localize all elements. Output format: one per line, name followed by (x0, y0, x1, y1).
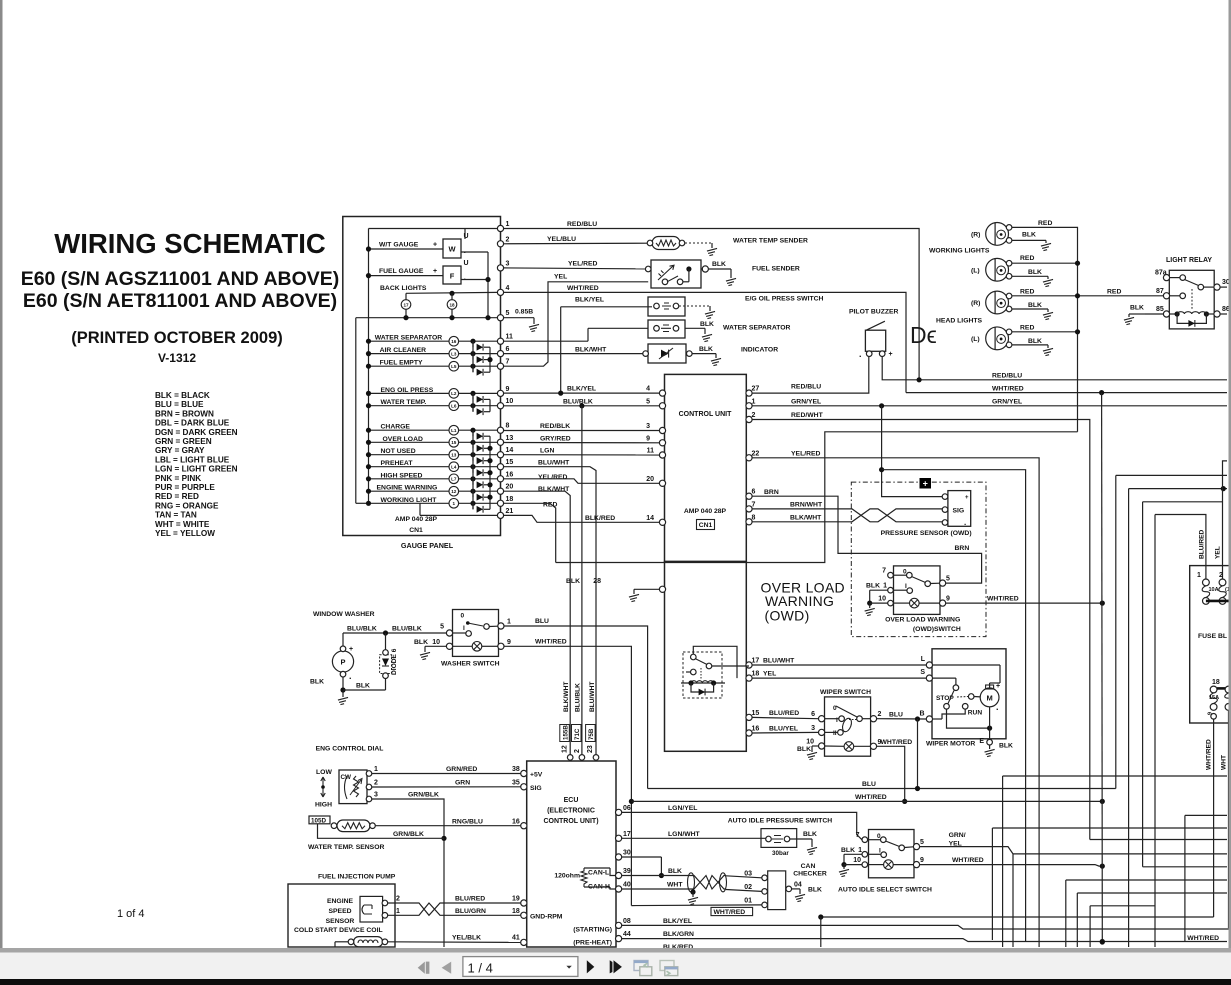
svg-text:+: + (889, 351, 893, 358)
svg-text:08: 08 (623, 918, 631, 925)
wiper motor box (932, 649, 1006, 739)
wire nest 1155 fuse1 feed (1155, 515, 1206, 582)
svg-text:W/T GAUGE: W/T GAUGE (379, 242, 419, 249)
washer switch (453, 610, 499, 657)
twisted pair engine speed to ECU (388, 903, 521, 915)
svg-text:CAN: CAN (801, 863, 816, 870)
svg-text:CAN-L: CAN-L (588, 870, 609, 877)
svg-text:WHT: WHT (1221, 755, 1228, 770)
svg-text:GAUGE PANEL: GAUGE PANEL (401, 541, 454, 550)
svg-text:BLU/YEL: BLU/YEL (769, 726, 798, 733)
svg-text:GRN/BLK: GRN/BLK (393, 831, 424, 838)
svg-text:INDICATOR: INDICATOR (741, 347, 778, 354)
pressure sensor OWD dashed enclosure (851, 482, 986, 636)
wire nest h776 (1003, 775, 1227, 777)
svg-text:SPEED: SPEED (328, 908, 351, 915)
wire nest v1013 (1012, 854, 1014, 947)
wiper motor internals (933, 664, 1001, 666)
gauge panel box (343, 217, 501, 536)
svg-text:SENSOR: SENSOR (326, 918, 355, 925)
svg-text:02: 02 (744, 884, 752, 891)
svg-text:U: U (464, 260, 469, 267)
svg-text:GRN: GRN (455, 779, 470, 786)
svg-text:BRN = BROWN: BRN = BROWN (155, 409, 214, 418)
svg-text:+: + (433, 268, 437, 275)
svg-text:BLK: BLK (310, 679, 324, 686)
toolbar page input (463, 957, 578, 977)
svg-text:17: 17 (403, 302, 409, 307)
svg-text:1: 1 (883, 583, 887, 590)
svg-text:1: 1 (507, 619, 511, 626)
svg-text:(STARTING): (STARTING) (573, 927, 612, 934)
svg-text:FUSE BL: FUSE BL (1198, 633, 1227, 640)
wire nest 1143 (1143, 501, 1223, 503)
OWD switch ground (870, 589, 888, 591)
svg-text:4: 4 (506, 285, 510, 292)
svg-text:SIG: SIG (953, 508, 965, 515)
svg-text:RED: RED (1020, 325, 1034, 332)
svg-text:LGN/WHT: LGN/WHT (668, 831, 701, 838)
pressure sensor connector (948, 491, 971, 527)
svg-text:16: 16 (506, 471, 514, 478)
svg-text:GRN/: GRN/ (949, 832, 966, 839)
svg-text:U: U (464, 233, 469, 240)
svg-text:L4: L4 (451, 465, 457, 470)
svg-text:DIODE 6: DIODE 6 (391, 648, 398, 675)
svg-text:13: 13 (451, 453, 457, 458)
svg-text:28: 28 (593, 578, 601, 585)
svg-text:AMP 040 28P: AMP 040 28P (684, 508, 727, 515)
svg-text:BLK/GRN: BLK/GRN (663, 931, 694, 938)
svg-text:18: 18 (512, 908, 520, 915)
svg-text:21: 21 (506, 508, 514, 515)
svg-text:LGN = LIGHT GREEN: LGN = LIGHT GREEN (155, 465, 238, 474)
svg-text:.: . (349, 671, 352, 681)
wire BLU/BLK washer to switch (343, 632, 446, 634)
svg-text:+: + (996, 683, 1000, 690)
svg-text:BLK: BLK (1028, 302, 1042, 309)
svg-text:RED = RED: RED = RED (155, 492, 199, 501)
svg-text:11: 11 (506, 334, 514, 341)
svg-text:BRN/WHT: BRN/WHT (790, 501, 823, 508)
svg-text:11: 11 (647, 448, 655, 455)
wire RED to light relay feed (556, 432, 1078, 563)
svg-text:WHT = WHITE: WHT = WHITE (155, 520, 210, 529)
svg-text:10A: 10A (1209, 587, 1219, 593)
wire BLK ECU30 to BLK39 (622, 856, 662, 858)
svg-text:5: 5 (920, 839, 924, 846)
wire gauge ground bus 0.85B (356, 317, 498, 319)
svg-text:COLD START DEVICE COIL: COLD START DEVICE COIL (294, 927, 383, 934)
toolbar first page button (418, 962, 425, 974)
svg-text:WHT/RED: WHT/RED (714, 909, 746, 916)
svg-text:22: 22 (752, 450, 760, 457)
wire nest h893 (1076, 893, 1078, 947)
svg-text:WATER SEPARATOR: WATER SEPARATOR (723, 325, 791, 332)
wire RED/BLU buzzer to right (882, 357, 1227, 380)
svg-text:BLK: BLK (1028, 269, 1042, 276)
svg-text:0.85B: 0.85B (515, 309, 533, 316)
water temp sensor (309, 816, 330, 824)
svg-text:L2: L2 (451, 391, 457, 396)
svg-text:+: + (349, 646, 353, 653)
toolbar separator (0, 948, 1231, 953)
svg-text:8: 8 (752, 514, 756, 521)
svg-text:2: 2 (506, 236, 510, 243)
svg-text:4: 4 (646, 386, 650, 393)
svg-text:14: 14 (646, 515, 654, 522)
svg-text:75B: 75B (588, 728, 595, 740)
svg-text:L5: L5 (451, 364, 457, 369)
wire nest h828 (992, 827, 1227, 829)
svg-text:L1: L1 (451, 428, 457, 433)
svg-text:ENG CONTROL DIAL: ENG CONTROL DIAL (316, 746, 384, 753)
control unit lower pins right (746, 662, 752, 668)
svg-text:RED/BLK: RED/BLK (540, 423, 570, 430)
svg-text:.: . (964, 518, 966, 527)
svg-text:BLK = BLACK: BLK = BLACK (155, 391, 210, 400)
svg-text:BLK: BLK (699, 346, 713, 353)
svg-text:PRESSURE SENSOR (OWD): PRESSURE SENSOR (OWD) (881, 530, 972, 537)
svg-text:BLU/RED: BLU/RED (455, 896, 485, 903)
svg-text:5: 5 (440, 624, 444, 631)
head/working lamp (L) 4 (986, 327, 1009, 350)
svg-text:L3: L3 (451, 351, 457, 356)
svg-text:(L): (L) (971, 267, 980, 274)
svg-text:1: 1 (1197, 572, 1201, 579)
page right border (1229, 0, 1231, 948)
svg-text:CONTROL UNIT): CONTROL UNIT) (543, 818, 598, 825)
page left border (0, 0, 3, 948)
svg-text:WATER TEMP. SENSOR: WATER TEMP. SENSOR (308, 844, 385, 851)
svg-text:BLK/WHT: BLK/WHT (563, 682, 570, 712)
svg-text:0: 0 (461, 613, 465, 620)
svg-text:7: 7 (856, 832, 860, 839)
svg-text:I: I (905, 583, 907, 590)
svg-text:BLK: BLK (712, 261, 726, 268)
svg-text:PILOT BUZZER: PILOT BUZZER (849, 309, 899, 316)
svg-text:(ELECTRONIC: (ELECTRONIC (547, 808, 595, 815)
svg-text:BLU/BLK: BLU/BLK (392, 626, 422, 633)
svg-text:GND-RPM: GND-RPM (530, 914, 563, 921)
svg-text:L7: L7 (451, 477, 457, 482)
svg-text:GRY = GRAY: GRY = GRAY (155, 446, 205, 455)
svg-text:1: 1 (858, 847, 862, 854)
svg-text:ECU: ECU (564, 797, 579, 804)
svg-text:12: 12 (451, 489, 457, 494)
svg-text:.: . (996, 702, 999, 712)
svg-text:BLU/WHT: BLU/WHT (589, 682, 596, 712)
svg-text:85: 85 (1156, 306, 1164, 313)
svg-text:WHT: WHT (667, 882, 683, 889)
svg-text:BRN: BRN (955, 545, 970, 552)
svg-text:1: 1 (374, 766, 378, 773)
svg-text:+: + (965, 495, 969, 501)
svg-text:+5V: +5V (530, 772, 543, 779)
svg-text:BLU/BLK: BLU/BLK (575, 683, 582, 712)
svg-text:3: 3 (646, 423, 650, 430)
svg-text:M: M (986, 693, 992, 702)
svg-text:10: 10 (432, 639, 440, 646)
twisted pair to pressure sensor (840, 509, 942, 522)
svg-text:B: B (919, 711, 924, 718)
svg-text:RED/BLU: RED/BLU (567, 221, 597, 228)
svg-text:F: F (450, 272, 455, 281)
svg-text:06: 06 (623, 805, 631, 812)
svg-text:WHT/RED: WHT/RED (987, 596, 1019, 603)
svg-text:ENGINE: ENGINE (327, 898, 354, 905)
toolbar background (0, 953, 1231, 980)
svg-text:(R): (R) (971, 231, 980, 238)
svg-text:LGN/YEL: LGN/YEL (668, 805, 697, 812)
svg-text:BLK/YEL: BLK/YEL (575, 297, 604, 304)
toolbar prev button (442, 962, 452, 974)
svg-text:+: + (923, 479, 928, 489)
svg-text:155B: 155B (562, 725, 569, 740)
svg-text:BLU/RED: BLU/RED (1199, 529, 1206, 559)
svg-text:71C: 71C (574, 728, 581, 740)
svg-text:BLK/WHT: BLK/WHT (790, 514, 822, 521)
wire GRN/YEL branch to pressure sensor (882, 406, 945, 497)
svg-text:HIGH: HIGH (315, 802, 332, 809)
svg-text:WHT/RED: WHT/RED (567, 285, 599, 292)
svg-text:RED/WHT: RED/WHT (791, 412, 824, 419)
svg-text:(OWD)SWITCH: (OWD)SWITCH (913, 626, 961, 633)
svg-text:CN1: CN1 (699, 522, 713, 529)
wire nest vertical BLU up (1115, 475, 1117, 788)
diode 6 (380, 655, 392, 674)
svg-text:3: 3 (374, 792, 378, 799)
svg-text:I: I (463, 625, 465, 632)
svg-text:WHT/RED: WHT/RED (881, 739, 913, 746)
svg-text:BLU/RED: BLU/RED (769, 710, 799, 717)
svg-text:40: 40 (623, 882, 631, 889)
washer motor ground (342, 677, 344, 690)
svg-text:E60 (S/N AET811001 AND ABOVE): E60 (S/N AET811001 AND ABOVE) (23, 290, 337, 312)
svg-text:BLK/YEL: BLK/YEL (567, 386, 596, 393)
svg-text:7: 7 (882, 568, 886, 575)
wiper switch ground (812, 745, 819, 747)
ECU box (527, 761, 616, 947)
svg-text:YEL/RED: YEL/RED (791, 450, 821, 457)
svg-text:BLK: BLK (1022, 232, 1036, 239)
svg-text:9: 9 (646, 435, 650, 442)
svg-text:DBL = DARK BLUE: DBL = DARK BLUE (155, 419, 230, 428)
svg-text:10: 10 (878, 596, 886, 603)
svg-text:Dϵ: Dϵ (910, 322, 937, 348)
svg-text:BLU/BLK: BLU/BLK (347, 626, 377, 633)
svg-text:7: 7 (752, 501, 756, 508)
svg-text:E/G OIL PRESS SWITCH: E/G OIL PRESS SWITCH (745, 296, 824, 303)
control unit left pins (659, 390, 665, 396)
svg-text:RED: RED (1107, 288, 1121, 295)
svg-text:WIPER MOTOR: WIPER MOTOR (926, 741, 975, 748)
svg-text:BLK/WHT: BLK/WHT (575, 347, 607, 354)
svg-text:6: 6 (811, 711, 815, 718)
svg-text:39: 39 (623, 868, 631, 875)
gauge panel pin 21 wire (420, 514, 498, 516)
svg-text:WASHER SWITCH: WASHER SWITCH (441, 661, 500, 668)
svg-text:BLU/BLK: BLU/BLK (563, 399, 593, 406)
svg-text:15: 15 (506, 459, 514, 466)
washer switch ground (425, 645, 446, 647)
svg-text:FUEL GAUGE: FUEL GAUGE (379, 268, 424, 275)
svg-text:GRN = GREEN: GRN = GREEN (155, 437, 212, 446)
wire nest h905 (1089, 906, 1091, 947)
svg-text:LIGHT RELAY: LIGHT RELAY (1166, 257, 1212, 264)
svg-text:8: 8 (506, 423, 510, 430)
svg-text:FUEL INJECTION PUMP: FUEL INJECTION PUMP (318, 874, 396, 881)
svg-text:18: 18 (506, 496, 514, 503)
svg-text:SIG: SIG (530, 785, 542, 792)
svg-text:9: 9 (920, 857, 924, 864)
svg-text:RED/BLU: RED/BLU (791, 384, 821, 391)
wire fuse18 down WHT/RED (1213, 719, 1215, 917)
svg-text:20: 20 (646, 476, 654, 483)
svg-text:BLU: BLU (889, 712, 903, 719)
svg-text:BLU/WHT: BLU/WHT (538, 460, 570, 467)
svg-text:CN1: CN1 (409, 527, 423, 534)
svg-text:YEL/RED: YEL/RED (538, 474, 568, 481)
svg-text:+: + (433, 242, 437, 249)
svg-text:YEL/BLU: YEL/BLU (547, 236, 576, 243)
svg-text:BLK: BLK (1028, 338, 1042, 345)
svg-text:87: 87 (1156, 288, 1164, 295)
wire gauge panel power bus (369, 228, 498, 230)
svg-text:YEL/BLK: YEL/BLK (452, 934, 481, 941)
wire nest h917 fuse18 (821, 916, 1214, 918)
svg-text:TAN = TAN: TAN = TAN (155, 511, 197, 520)
svg-text:WATER TEMP SENDER: WATER TEMP SENDER (733, 238, 808, 245)
svg-text:YEL: YEL (763, 671, 776, 678)
wire WHT down (1228, 710, 1230, 928)
svg-text:16: 16 (451, 339, 457, 344)
washer switch pins right (498, 623, 504, 629)
water separator switch (504, 340, 588, 342)
CAN pair ground (690, 889, 695, 894)
svg-text:BLK: BLK (414, 639, 428, 646)
svg-text:WORKING LIGHTS: WORKING LIGHTS (929, 248, 990, 255)
wire WHT/RED to right (906, 392, 1227, 394)
svg-text:YEL = YELLOW: YEL = YELLOW (155, 529, 215, 538)
svg-text:L: L (921, 656, 926, 663)
svg-text:WHT/RED: WHT/RED (855, 794, 887, 801)
washer motor P (332, 651, 353, 672)
svg-text:II: II (833, 730, 837, 737)
svg-text:LBL = LIGHT BLUE: LBL = LIGHT BLUE (155, 455, 230, 464)
svg-text:LOW: LOW (316, 769, 332, 776)
svg-text:9: 9 (946, 596, 950, 603)
svg-text:44: 44 (623, 931, 631, 938)
svg-text:BLU/GRN: BLU/GRN (455, 908, 486, 915)
ECU left pins (521, 770, 527, 776)
svg-text:5: 5 (946, 576, 950, 583)
auto idle select switch (869, 830, 915, 878)
svg-text:BLK: BLK (803, 831, 817, 838)
wire nest fuse2 feed (1223, 461, 1228, 581)
wire WHT/RED boxed label to CAN01 (631, 904, 761, 907)
svg-text:BLK: BLK (700, 321, 714, 328)
toolbar page-fwd icon (660, 961, 674, 971)
svg-text:RNG/BLU: RNG/BLU (452, 818, 483, 825)
svg-text:120ohm: 120ohm (554, 873, 580, 880)
svg-text:HEAD LIGHTS: HEAD LIGHTS (936, 318, 983, 325)
svg-text:WIPER SWITCH: WIPER SWITCH (820, 689, 871, 696)
svg-text:OVER LOAD WARNING: OVER LOAD WARNING (885, 617, 960, 624)
svg-text:18: 18 (1212, 679, 1220, 686)
svg-text:YEL/RED: YEL/RED (568, 261, 598, 268)
svg-text:(OWD): (OWD) (765, 607, 810, 623)
wire nest corner 1116 right (1116, 474, 1227, 476)
svg-text:(PRE-HEAT): (PRE-HEAT) (573, 940, 612, 947)
svg-text:15A: 15A (1209, 695, 1219, 701)
svg-text:5: 5 (506, 310, 510, 317)
head/working lamp (R) 3 (986, 291, 1009, 314)
auto idle select ground (844, 853, 862, 855)
svg-text:30bar: 30bar (772, 850, 789, 857)
svg-text:12: 12 (562, 745, 569, 753)
svg-text:E: E (979, 738, 984, 745)
svg-text:S: S (920, 669, 925, 676)
wire nest h880 (1065, 880, 1067, 947)
svg-text:17: 17 (623, 831, 631, 838)
svg-text:(PRINTED OCTOBER 2009): (PRINTED OCTOBER 2009) (71, 329, 283, 347)
svg-text:30: 30 (623, 850, 631, 857)
svg-text:6: 6 (506, 346, 510, 353)
svg-text:3: 3 (506, 260, 510, 267)
svg-text:9: 9 (506, 386, 510, 393)
svg-text:2: 2 (878, 711, 882, 718)
svg-text:WARNING: WARNING (765, 593, 834, 609)
svg-text:1: 1 (752, 398, 756, 405)
svg-text:BLK/YEL: BLK/YEL (663, 918, 692, 925)
svg-text:16: 16 (512, 818, 520, 825)
svg-text:RED: RED (1020, 255, 1034, 262)
svg-text:6: 6 (752, 489, 756, 496)
svg-text:BLU = BLUE: BLU = BLUE (155, 400, 204, 409)
svg-text:BLU: BLU (862, 781, 876, 788)
svg-text:RNG = ORANGE: RNG = ORANGE (155, 501, 219, 510)
svg-text:10: 10 (506, 398, 514, 405)
svg-text:9: 9 (507, 639, 511, 646)
svg-text:03: 03 (744, 870, 752, 877)
svg-text:04: 04 (794, 881, 802, 888)
watermark plus marker (920, 478, 932, 489)
svg-text:BLK: BLK (797, 746, 811, 753)
svg-text:AMP 040 28P: AMP 040 28P (395, 516, 438, 523)
svg-text:2: 2 (752, 412, 756, 419)
svg-text:1 of 4: 1 of 4 (117, 908, 145, 920)
svg-text:105D: 105D (311, 817, 327, 824)
svg-text:BLU/WHT: BLU/WHT (763, 658, 795, 665)
svg-text:16: 16 (752, 726, 760, 733)
svg-text:19: 19 (512, 896, 520, 903)
svg-text:35: 35 (512, 779, 520, 786)
fuse bus bar (1206, 600, 1231, 603)
svg-text:.: . (859, 349, 862, 359)
svg-text:2: 2 (396, 896, 400, 903)
wire nest h839 (1090, 839, 1227, 841)
svg-text:PNK = PINK: PNK = PINK (155, 474, 201, 483)
E/G oil press switch (648, 297, 685, 316)
svg-text:P: P (340, 658, 345, 667)
svg-text:18: 18 (752, 671, 760, 678)
svg-text:2: 2 (1219, 572, 1223, 579)
svg-text:BLK: BLK (841, 847, 855, 854)
svg-text:9: 9 (1208, 712, 1214, 715)
svg-text:WHT/RED: WHT/RED (1206, 739, 1213, 770)
svg-text:BLK: BLK (356, 683, 370, 690)
